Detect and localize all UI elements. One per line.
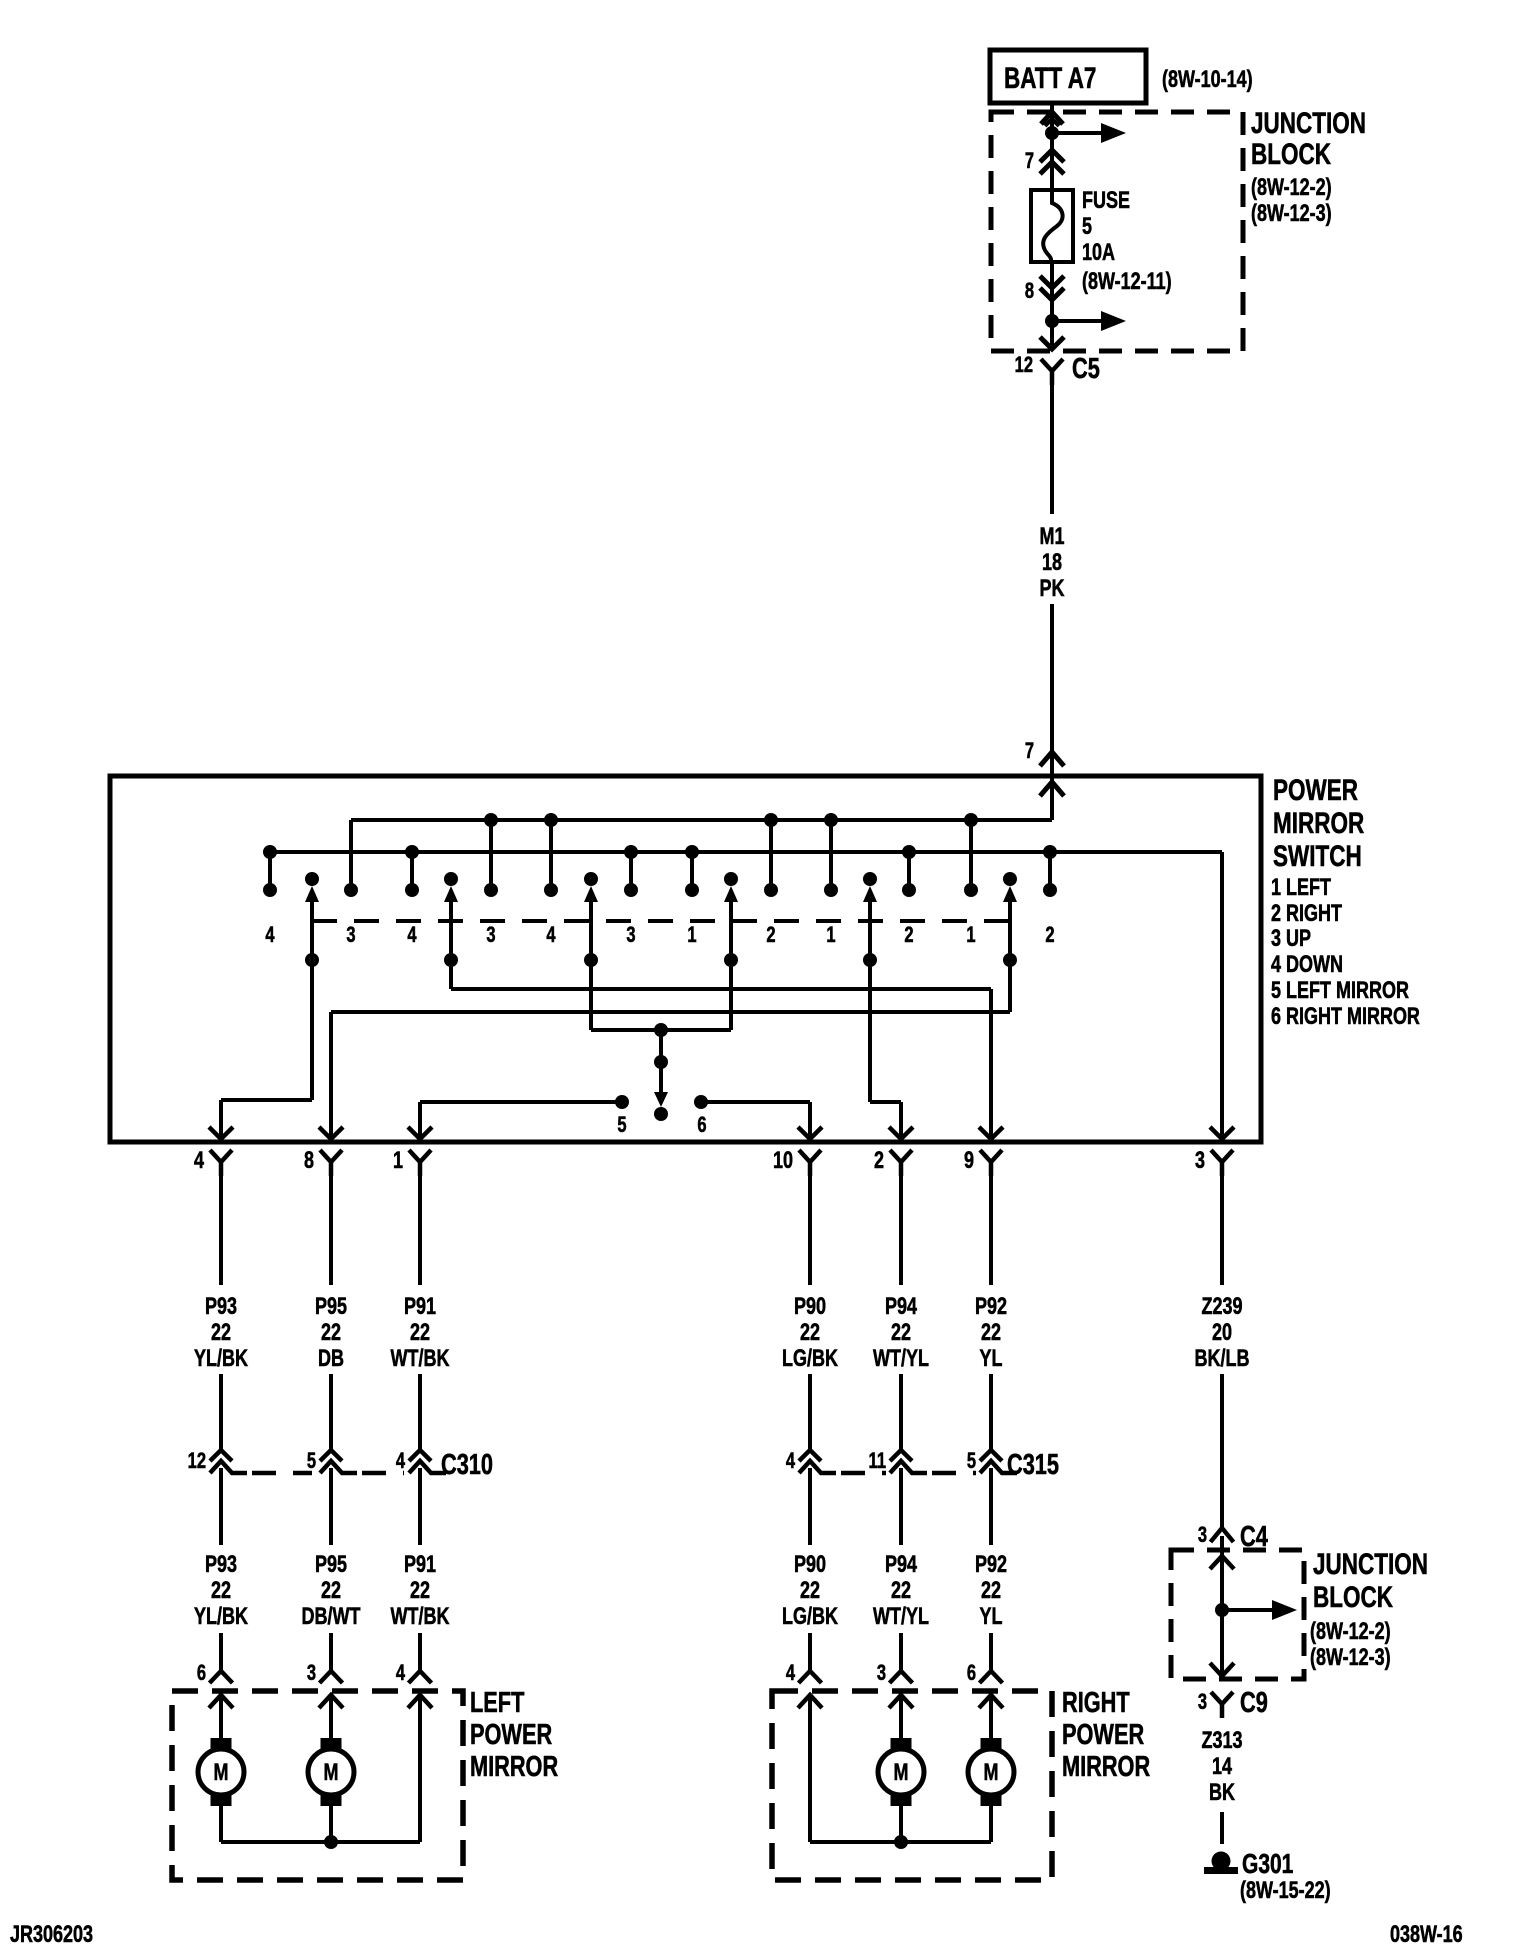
svg-text:FUSE: FUSE [1082,188,1130,214]
branch arrow to other circuits (top) [1052,131,1104,135]
svg-text:18: 18 [1042,550,1062,576]
svg-text:P94: P94 [885,1552,917,1578]
svg-text:3 UP: 3 UP [1271,926,1311,952]
svg-text:3: 3 [486,923,495,948]
pin 9 exit arrow [979,1127,1003,1139]
connector C4 chevron [1211,1528,1234,1542]
connector C315 dashed links [841,1471,886,1476]
wires from switch to labels [219,1162,223,1285]
connector C9 Y symbol [1211,1692,1233,1718]
ground G301 symbol [1212,1852,1231,1871]
svg-text:POWER: POWER [1062,1719,1144,1751]
node selector dot lower [654,1107,668,1121]
svg-text:JUNCTION: JUNCTION [1251,106,1366,140]
svg-text:P91: P91 [404,1294,436,1320]
node junction dot above C5 [1045,314,1059,328]
svg-text:WT/BK: WT/BK [391,1346,451,1372]
svg-text:1: 1 [393,1148,403,1174]
svg-text:C9: C9 [1240,1687,1268,1719]
left mirror motor M (horizontal) [329,1695,333,1740]
svg-text:M: M [894,1760,909,1786]
left mirror common node dot [324,1835,338,1849]
svg-text:C5: C5 [1072,353,1100,385]
svg-text:M: M [984,1760,999,1786]
right mirror entry arrows [798,1695,822,1708]
svg-text:2: 2 [766,923,775,948]
svg-text:YL: YL [979,1604,1002,1630]
wire bus2 to pin 3 [1220,852,1224,1139]
svg-text:3: 3 [307,1661,316,1686]
svg-text:WT/YL: WT/YL [873,1346,929,1372]
node junction dot below BATT A7 [1045,126,1059,140]
svg-text:12: 12 [1015,353,1034,378]
svg-text:3: 3 [1198,1523,1207,1548]
right mirror motor M (horizontal) [989,1695,993,1740]
left mirror motor M (vertical) [219,1695,223,1740]
svg-text:22: 22 [981,1320,1001,1346]
pin 3 exit arrow [1210,1127,1234,1139]
wire arm5 to pin 2 [868,960,872,1102]
connector C315 symbols [799,1450,821,1461]
bus1 junction dots [484,813,498,827]
wire arm2 to pin 9 [449,960,453,989]
wire M1 lower segment [1050,604,1054,776]
svg-text:P90: P90 [794,1552,826,1578]
svg-text:4: 4 [265,923,274,948]
node common dot middle [654,1055,668,1069]
pin 1 exit arrow [408,1127,432,1139]
svg-text:2: 2 [874,1148,884,1174]
power mirror switch box outline [110,776,1261,1142]
arrowhead into BATT A7 [1041,112,1063,124]
svg-text:12: 12 [188,1449,207,1474]
svg-text:(8W-12-3): (8W-12-3) [1251,201,1332,227]
contact 6 dot [694,1095,708,1109]
svg-text:BLOCK: BLOCK [1313,1580,1393,1614]
wire M1 upper segment [1050,385,1054,514]
svg-text:8: 8 [304,1148,314,1174]
pin 7 entry arrow inside switch [1040,782,1064,796]
wires from lower labels to mirrors [219,1633,223,1671]
svg-text:JUNCTION: JUNCTION [1313,1547,1428,1581]
svg-text:POWER: POWER [1273,773,1358,807]
right mirror feed wire [808,1695,812,1842]
switch pin 7 entry chevron [1040,752,1064,766]
bus2 junction dots [263,845,277,859]
contact 5 dot [615,1095,629,1109]
svg-text:BATT A7: BATT A7 [1004,61,1096,95]
svg-text:22: 22 [891,1578,911,1604]
svg-text:4 DOWN: 4 DOWN [1271,952,1343,978]
svg-text:2: 2 [1045,923,1054,948]
svg-text:2 RIGHT: 2 RIGHT [1271,901,1342,927]
wire contact5 to pin 1 [420,1100,622,1104]
svg-text:5: 5 [967,1449,976,1474]
svg-text:11: 11 [869,1449,887,1474]
svg-text:DB: DB [318,1346,344,1372]
svg-text:3: 3 [1198,1690,1207,1715]
svg-text:22: 22 [891,1320,911,1346]
svg-text:LG/BK: LG/BK [782,1604,839,1630]
svg-text:MIRROR: MIRROR [1273,806,1364,840]
pin 8 double chevron (down) [1040,276,1064,288]
svg-text:7: 7 [1025,739,1034,764]
wire arms 3-4 to common [589,960,593,1030]
left mirror common return wire [418,1695,422,1842]
right mirror motor M (vertical) [899,1695,903,1740]
svg-text:22: 22 [981,1578,1001,1604]
svg-text:P91: P91 [404,1552,436,1578]
svg-text:M: M [214,1760,229,1786]
svg-text:P93: P93 [205,1552,237,1578]
right power mirror dashed box [772,1691,1052,1880]
svg-text:14: 14 [1212,1754,1232,1780]
svg-text:YL/BK: YL/BK [194,1604,249,1630]
svg-text:1: 1 [687,923,696,948]
svg-text:LG/BK: LG/BK [782,1346,839,1372]
wire below fuse [1050,262,1054,349]
svg-text:22: 22 [321,1578,341,1604]
svg-text:P92: P92 [975,1294,1007,1320]
svg-text:3: 3 [877,1661,886,1686]
junction block (top) dashed outline [991,112,1243,351]
svg-text:10A: 10A [1082,240,1115,266]
svg-text:5: 5 [307,1449,316,1474]
right mirror common node dot [894,1835,908,1849]
node common dot upper [654,1023,668,1037]
bus1 contact stubs [349,820,353,890]
svg-text:RIGHT: RIGHT [1062,1687,1130,1719]
svg-text:038W-16: 038W-16 [1390,1922,1463,1948]
svg-text:4: 4 [786,1449,795,1474]
svg-text:7: 7 [1025,149,1034,174]
svg-text:YL: YL [979,1346,1002,1372]
junction block (bottom) dashed outline [1171,1550,1304,1679]
svg-text:4: 4 [546,923,555,948]
wires from connectors to lower labels [219,1468,223,1545]
wires from labels to connectors [219,1374,223,1452]
left mirror entry arrows [209,1695,233,1708]
feed bus 2 (lower) [270,850,1222,854]
connector C310 symbols [210,1450,232,1461]
svg-text:JR306203: JR306203 [10,1922,93,1948]
svg-text:YL/BK: YL/BK [194,1346,249,1372]
switch arm wipers with up arrows [305,872,319,886]
junction block exit arrow [1210,1663,1234,1676]
svg-text:SWITCH: SWITCH [1273,839,1362,873]
battery feed box BATT A7 [990,50,1146,103]
wire from BATT A7 into junction block [1050,103,1054,191]
svg-text:(8W-12-11): (8W-12-11) [1082,269,1172,295]
svg-text:4: 4 [194,1148,204,1174]
exit arrowhead at junction block bottom [1040,337,1064,349]
switch output Y connectors [210,1150,232,1176]
svg-text:P93: P93 [205,1294,237,1320]
branch arrow to other circuits (bottom) [1052,319,1104,323]
mirror connector chevrons [210,1671,233,1683]
svg-text:22: 22 [410,1320,430,1346]
svg-text:1: 1 [966,923,975,948]
svg-text:5: 5 [1082,214,1092,240]
svg-text:6 RIGHT MIRROR: 6 RIGHT MIRROR [1271,1004,1420,1030]
svg-text:LEFT: LEFT [470,1687,525,1719]
svg-text:22: 22 [800,1578,820,1604]
svg-text:(8W-12-2): (8W-12-2) [1251,175,1332,201]
right mirror common return wire [810,1840,991,1844]
svg-text:8: 8 [1025,279,1034,304]
svg-text:22: 22 [410,1578,430,1604]
svg-text:C310: C310 [441,1449,493,1481]
svg-text:MIRROR: MIRROR [1062,1751,1150,1783]
svg-text:BK: BK [1209,1780,1236,1806]
svg-text:3: 3 [1195,1148,1205,1174]
svg-text:4: 4 [396,1449,405,1474]
svg-text:DB/WT: DB/WT [302,1604,361,1630]
svg-text:(8W-12-2): (8W-12-2) [1310,1619,1391,1645]
svg-text:1: 1 [826,923,835,948]
svg-text:Z313: Z313 [1201,1728,1242,1754]
svg-text:G301: G301 [1242,1849,1294,1880]
wire arm6 to pin 8 [1008,960,1012,1012]
svg-text:P92: P92 [975,1552,1007,1578]
svg-text:6: 6 [697,1113,706,1138]
svg-text:(8W-15-22): (8W-15-22) [1240,1878,1331,1904]
wire contact6 to pin 10 [701,1100,810,1104]
svg-text:BLOCK: BLOCK [1251,137,1331,171]
left power mirror dashed box [172,1691,463,1880]
branch arrow (bottom block) [1222,1608,1274,1612]
svg-text:4: 4 [407,923,416,948]
svg-text:22: 22 [800,1320,820,1346]
svg-text:(8W-12-3): (8W-12-3) [1310,1645,1391,1671]
svg-text:6: 6 [967,1661,976,1686]
svg-text:P94: P94 [885,1294,917,1320]
svg-text:4: 4 [396,1661,405,1686]
svg-text:WT/YL: WT/YL [873,1604,929,1630]
pin 10 exit arrow [798,1127,822,1139]
svg-text:3: 3 [626,923,635,948]
svg-text:22: 22 [211,1320,231,1346]
svg-text:BK/LB: BK/LB [1195,1346,1250,1372]
svg-text:P95: P95 [315,1294,347,1320]
wire Z313 to ground [1220,1812,1224,1844]
svg-text:5 LEFT MIRROR: 5 LEFT MIRROR [1271,978,1409,1004]
svg-text:C315: C315 [1007,1449,1059,1481]
wire arm1 to pin 4 [310,960,314,1100]
pin 8 exit arrow [319,1127,343,1139]
svg-text:POWER: POWER [470,1719,552,1751]
svg-text:PK: PK [1039,576,1065,602]
svg-text:1 LEFT: 1 LEFT [1271,875,1331,901]
fuse FUSE 5 10A body [1031,190,1073,262]
common selector stem [659,1030,663,1062]
svg-text:4: 4 [786,1661,795,1686]
svg-text:6: 6 [197,1661,206,1686]
svg-text:10: 10 [773,1148,793,1174]
fixed contact dots [263,883,277,897]
connector C310 dashed links [252,1471,312,1476]
svg-text:22: 22 [211,1578,231,1604]
svg-text:(8W-10-14): (8W-10-14) [1162,67,1253,93]
wire pin7 to feed bus [1050,776,1054,820]
svg-text:MIRROR: MIRROR [470,1751,558,1783]
svg-text:3: 3 [346,923,355,948]
svg-text:M1: M1 [1039,524,1064,550]
fuse element squiggle [1043,191,1062,263]
mechanical link dashed line [312,919,1010,923]
bus2 contact stubs [268,852,272,890]
svg-text:9: 9 [964,1148,974,1174]
pin 2 exit arrow [889,1127,913,1139]
svg-text:20: 20 [1212,1320,1232,1346]
selector down arrow [659,1062,663,1093]
svg-text:2: 2 [904,923,913,948]
connector C5 Y symbol [1041,359,1063,385]
svg-text:P95: P95 [315,1552,347,1578]
pin 4 exit arrow [209,1127,233,1139]
wire through junction block [1220,1536,1224,1676]
svg-text:5: 5 [617,1113,626,1138]
svg-text:Z239: Z239 [1201,1294,1242,1320]
junction block entry arrow [1210,1556,1234,1569]
feed bus 1 (upper) [351,818,1052,822]
svg-text:M: M [324,1760,339,1786]
svg-text:22: 22 [321,1320,341,1346]
svg-text:P90: P90 [794,1294,826,1320]
pin 7 double chevron [1040,150,1064,162]
svg-text:WT/BK: WT/BK [391,1604,451,1630]
node junction dot (bottom block) [1215,1603,1229,1617]
